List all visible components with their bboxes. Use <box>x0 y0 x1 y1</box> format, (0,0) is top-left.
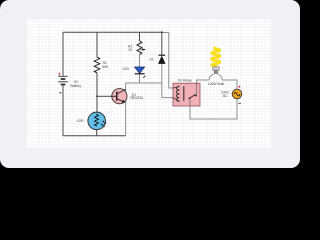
relay switch <box>189 98 191 100</box>
wire base <box>97 95 112 97</box>
node D1 top junction <box>161 31 163 33</box>
AC minus label <box>238 102 241 104</box>
LED arrows <box>140 48 142 51</box>
svg-text:100W Bulb: 100W Bulb <box>208 82 225 86</box>
relay coil <box>173 87 179 102</box>
transistor Q1 <box>112 89 127 104</box>
svg-text:Battery: Battery <box>70 84 81 88</box>
wire collector rail <box>126 82 162 84</box>
wire collector lead <box>125 83 127 92</box>
schematic canvas <box>27 19 272 148</box>
wire bulb right leg to AC + <box>222 80 237 89</box>
svg-text:1K: 1K <box>128 48 133 52</box>
resistor R2 <box>137 41 142 55</box>
wire LED to collector rail <box>139 74 141 83</box>
wire left rail upper (battery +) <box>62 32 64 76</box>
lamp L1 100W bulb <box>209 48 222 80</box>
wire emitter lead <box>125 102 127 136</box>
wire left rail lower (battery -) <box>62 85 64 136</box>
svg-text:9V: 9V <box>74 80 79 84</box>
resistor R1 <box>94 57 100 73</box>
LDR R3 <box>88 112 106 130</box>
svg-text:AC: AC <box>223 94 228 98</box>
wire D1 to relay coil bottom <box>162 64 173 98</box>
wire D1 branch top <box>161 32 163 55</box>
svg-text:9V Relay: 9V Relay <box>178 79 192 83</box>
node base junction <box>96 95 98 97</box>
svg-text:LED: LED <box>122 67 129 71</box>
wire R1 branch top <box>96 32 98 57</box>
wire LDR bottom <box>96 130 98 136</box>
wire R1 to LDR <box>96 73 98 112</box>
battery V1 9V <box>58 76 67 84</box>
wire R2 branch <box>139 32 141 41</box>
svg-text:LDR: LDR <box>77 119 84 123</box>
diode D1 <box>159 54 166 56</box>
wire top rail <box>63 31 162 33</box>
AC plus label <box>238 86 240 88</box>
relay core <box>183 86 185 101</box>
wire relay coil feed from top rail <box>162 33 173 89</box>
battery minus label <box>59 92 62 94</box>
battery plus label <box>58 73 60 75</box>
wire bottom rail <box>63 135 126 137</box>
AC source V2 <box>232 89 242 99</box>
svg-text:2N2222A: 2N2222A <box>130 96 144 100</box>
svg-text:D1: D1 <box>149 57 153 61</box>
LED diode <box>135 67 145 73</box>
window background <box>0 0 300 168</box>
relay K1 body <box>173 83 200 106</box>
wire AC - to relay common <box>190 99 237 119</box>
svg-text:50K: 50K <box>102 65 109 69</box>
wire R2 to LED <box>139 55 141 68</box>
wire relay NO contact to bulb <box>197 80 209 95</box>
